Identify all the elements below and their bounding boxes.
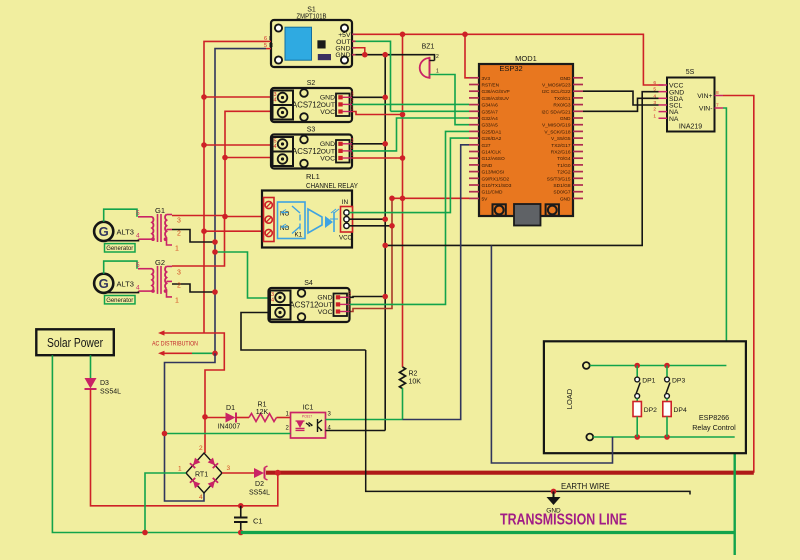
svg-text:NO: NO — [280, 225, 289, 232]
svg-text:RST/EN: RST/EN — [482, 83, 500, 89]
wire N to S4 terminal1 green — [215, 252, 284, 298]
wire S2 OUT row straight to ESP32 G34 — [352, 103, 469, 105]
ESP8266 relay control box — [544, 341, 746, 453]
svg-text:I2C SCL/G22: I2C SCL/G22 — [542, 89, 571, 95]
svg-text:V_MISO/G19: V_MISO/G19 — [542, 123, 571, 129]
wire S3 OUT route up to ESP32 G32 — [352, 118, 469, 151]
node S2 voc junction — [400, 112, 406, 118]
load terminal bottom — [586, 434, 593, 441]
wire R2 bottom green to IC1 pin3 node — [402, 388, 404, 420]
svg-text:G34/A6: G34/A6 — [482, 103, 499, 109]
svg-text:4: 4 — [136, 233, 140, 240]
svg-text:ALT3: ALT3 — [117, 228, 134, 237]
svg-text:TX2/G17: TX2/G17 — [551, 143, 571, 149]
svg-text:IN: IN — [342, 199, 349, 206]
wire S1 OUT green drop to G34 row — [356, 41, 391, 111]
pin labels RL1 IN VCC — [339, 199, 353, 242]
svg-text:VIN-: VIN- — [699, 105, 713, 112]
wire VCC aux red vertical x392 — [350, 198, 393, 311]
wire AC distribution stub2 red-green — [158, 351, 215, 356]
svg-text:RX2/G16: RX2/G16 — [551, 150, 571, 156]
svg-text:G10/TX1/SD3: G10/TX1/SD3 — [482, 183, 512, 189]
wire N jog to bridge pin4 — [165, 353, 216, 501]
svg-text:G1: G1 — [155, 206, 165, 215]
svg-text:OUT: OUT — [321, 102, 335, 109]
wire L to relay terminal3 — [204, 230, 264, 232]
wire solar right lead green to D3 — [90, 355, 92, 378]
node S3 terminal2 junction — [222, 155, 228, 161]
svg-text:GND: GND — [317, 295, 332, 302]
RL1 relay contact block K1 — [278, 202, 306, 239]
wire load bottom rail green — [593, 436, 735, 438]
svg-text:G35/A7: G35/A7 — [482, 109, 499, 115]
svg-text:5: 5 — [136, 262, 140, 269]
wire 5V row to ESP32 pin — [392, 197, 469, 199]
svg-text:T2/G2: T2/G2 — [557, 170, 571, 176]
svg-text:5V: 5V — [482, 196, 489, 202]
wire D1 to R1 — [236, 417, 249, 419]
Generator label box #2 — [105, 296, 136, 305]
svg-text:4: 4 — [271, 298, 274, 304]
Solar Power box — [36, 329, 114, 355]
pin numbers IC1 — [286, 412, 332, 432]
svg-text:NA: NA — [669, 116, 679, 123]
node L/S2 junction — [201, 94, 207, 100]
svg-text:G33/A5: G33/A5 — [482, 123, 499, 129]
wire RL1 GND to bus — [349, 218, 385, 220]
buzzer BZ1 — [420, 57, 435, 79]
node INA gnd junction — [382, 243, 388, 249]
switch DP3 — [665, 366, 686, 399]
svg-text:8: 8 — [716, 90, 719, 96]
svg-text:LOAD: LOAD — [565, 388, 574, 409]
svg-text:GND: GND — [320, 95, 335, 102]
svg-text:G25/DA1: G25/DA1 — [482, 129, 502, 135]
RL1 driver symbols — [308, 209, 339, 233]
wire BZ1 pin2 black to S1 gnd line — [433, 55, 435, 61]
capacitor C1 — [234, 506, 263, 533]
wire I2C SCL from ESP32 G22 — [583, 91, 659, 105]
svg-text:ACS712: ACS712 — [292, 101, 321, 110]
svg-text:1: 1 — [175, 246, 179, 253]
label ESP8266 Relay Control — [692, 413, 736, 432]
current monitor module 5S INA219 — [653, 69, 723, 132]
svg-text:5: 5 — [136, 210, 140, 217]
svg-text:ZMPT101B: ZMPT101B — [297, 14, 327, 21]
wire I2C SDA from ESP32 G21 — [583, 98, 659, 111]
svg-text:D2: D2 — [255, 481, 264, 488]
svg-text:GND: GND — [560, 116, 571, 122]
RL1 right pin connector — [341, 207, 353, 233]
node G1/N junction — [212, 239, 218, 245]
terminal pin numbers S4 — [271, 292, 274, 304]
node L/S3 junction — [201, 142, 207, 148]
svg-text:SD0/G7: SD0/G7 — [553, 190, 570, 196]
wire N-bus navy vertical from S1 pin5 down left side — [215, 49, 266, 354]
label S3 — [307, 127, 316, 134]
wire IC1 pin4 black to gnd bus — [326, 430, 386, 432]
label LOAD rotated — [565, 388, 574, 409]
wire S3 VOC to 5V bus — [352, 157, 403, 159]
svg-text:4: 4 — [274, 144, 277, 150]
current sensor module S4 ACS712 — [269, 288, 350, 322]
svg-text:PC817: PC817 — [302, 415, 312, 419]
wire G35 row from S1 drop — [391, 110, 470, 112]
svg-text:Generator: Generator — [106, 245, 133, 252]
svg-text:6: 6 — [653, 80, 656, 86]
pin labels transformer G1 — [136, 210, 181, 253]
transformer G1 — [138, 206, 172, 245]
svg-text:V_SCK/G18: V_SCK/G18 — [544, 129, 570, 135]
terminal pin numbers S3 — [274, 139, 277, 151]
svg-text:VOC: VOC — [320, 109, 335, 116]
svg-text:TX0/G1: TX0/G1 — [554, 96, 571, 102]
svg-text:S3: S3 — [307, 127, 316, 134]
svg-text:G26/DA2: G26/DA2 — [482, 136, 502, 142]
node S1 gnd joint — [362, 52, 368, 58]
wire VIN+ red to transmission line — [723, 96, 754, 473]
wire D1 anode lead — [205, 417, 226, 419]
svg-text:6: 6 — [264, 36, 267, 42]
terminal pin numbers S2 — [274, 92, 277, 104]
wire BZ1 pin1 green route to ESP32 G33 — [435, 75, 470, 125]
RL1 left screw terminal strip — [264, 198, 275, 242]
node N/stub2 junction — [212, 351, 218, 357]
svg-text:3: 3 — [177, 218, 181, 225]
pin labels transformer G2 — [136, 262, 181, 305]
svg-text:VOC: VOC — [318, 309, 333, 316]
svg-text:G9/RX1/SD2: G9/RX1/SD2 — [482, 176, 510, 182]
node S2 gnd junction — [382, 95, 388, 101]
wire S1 GND pins to bus and buzzer — [356, 48, 434, 55]
wire G2 pin3 riser to relay line — [172, 217, 225, 267]
node L/relay-t3 junction — [201, 228, 207, 234]
wire S4 GND up to bus node — [350, 296, 386, 299]
load terminal top — [583, 362, 590, 369]
svg-text:C1: C1 — [253, 517, 263, 526]
svg-text:G12/A6SO: G12/A6SO — [482, 156, 505, 162]
label S1 / ZMPT101B — [297, 7, 327, 21]
svg-text:AC DISTRIBUTION: AC DISTRIBUTION — [152, 341, 198, 348]
svg-text:VCC: VCC — [339, 235, 353, 242]
svg-text:R1: R1 — [258, 402, 267, 409]
svg-text:IN4007: IN4007 — [218, 424, 241, 431]
pin labels S2 GND OUT VOC — [320, 91, 354, 116]
svg-text:G: G — [99, 224, 109, 239]
svg-text:7: 7 — [716, 103, 719, 109]
svg-text:3: 3 — [351, 138, 354, 144]
node rail/5V junction — [400, 32, 406, 38]
wire L to S3 terminal1 — [204, 144, 284, 146]
svg-text:RX0/G3: RX0/G3 — [553, 103, 570, 109]
svg-text:3: 3 — [348, 291, 351, 297]
wire S2 VOC to 5V bus — [352, 112, 403, 115]
label S2 — [307, 80, 316, 87]
svg-text:1: 1 — [436, 69, 439, 75]
label RL1 CHANNEL RELAY — [306, 172, 358, 190]
wire L drop to D1 anode — [204, 417, 206, 453]
svg-text:1: 1 — [175, 297, 179, 304]
wire generator2 bottom black to transformer pin4 — [104, 291, 139, 293]
svg-text:DP2: DP2 — [644, 407, 657, 414]
wire GND bus black vertical x385 — [384, 55, 386, 431]
node gnd-bus top — [382, 52, 388, 58]
svg-text:R2: R2 — [409, 371, 418, 378]
wire generator1 bottom black to transformer pin4 — [104, 239, 139, 241]
label S4 — [304, 280, 313, 287]
wire R2 node navy to ESP32 G27 — [403, 145, 470, 420]
svg-text:ESP32: ESP32 — [499, 64, 522, 73]
node earth gnd junction — [551, 489, 557, 495]
svg-text:L: L — [269, 36, 272, 42]
svg-text:S1: S1 — [307, 7, 316, 14]
svg-text:5S: 5S — [686, 69, 695, 76]
pin labels RT1 — [178, 445, 231, 501]
generator ALT3 #1 circle — [94, 222, 113, 241]
svg-text:SS/T3/G15: SS/T3/G15 — [547, 176, 571, 182]
svg-text:2: 2 — [351, 145, 354, 151]
svg-text:D1: D1 — [226, 405, 235, 412]
svg-text:N: N — [269, 43, 273, 49]
wire RL1 VCC to x392 — [349, 225, 392, 227]
wire load return navy to ESP32 — [491, 245, 612, 463]
svg-text:ACS712: ACS712 — [290, 301, 319, 310]
svg-text:ESP8266: ESP8266 — [699, 413, 729, 422]
wire ground rail right riser — [734, 437, 736, 555]
svg-text:CHANNEL RELAY: CHANNEL RELAY — [306, 181, 358, 190]
wire top +5V rail from S1 to INA219 VCC — [356, 34, 664, 85]
Generator label box #1 — [105, 244, 136, 253]
node DP3 top junction — [664, 363, 670, 369]
svg-text:2: 2 — [177, 282, 181, 289]
svg-text:G: G — [99, 276, 109, 291]
svg-text:3: 3 — [351, 91, 354, 97]
node G2/N junction — [212, 289, 218, 295]
svg-text:K1: K1 — [295, 232, 303, 239]
wire earth black — [366, 350, 690, 495]
svg-text:SD1/G8: SD1/G8 — [553, 183, 570, 189]
svg-text:OUT: OUT — [321, 148, 335, 155]
wire ground rail thick green bottom — [241, 531, 735, 534]
svg-text:VOC: VOC — [320, 155, 335, 162]
ground symbol GND — [546, 491, 561, 514]
svg-text:OUT: OUT — [318, 302, 332, 309]
wire G1 pin2 elbow to N — [172, 230, 215, 243]
node S3 voc junction — [400, 155, 406, 161]
node bottom-rail/bridge junction — [142, 530, 148, 536]
svg-text:BZ1: BZ1 — [422, 44, 435, 51]
svg-text:1: 1 — [178, 466, 182, 473]
svg-text:G39/A3/SUV: G39/A3/SUV — [482, 96, 510, 102]
svg-text:SS54L: SS54L — [100, 389, 121, 396]
current sensor module S2 ACS712 — [271, 88, 352, 122]
svg-text:2: 2 — [177, 231, 181, 238]
resistor DP4 — [663, 398, 687, 437]
diode D2 SS54L — [249, 466, 270, 497]
S1 right pins — [352, 34, 356, 54]
node RL1 vcc junction — [389, 223, 395, 229]
svg-text:GND: GND — [560, 76, 571, 82]
svg-text:G13/MOSI: G13/MOSI — [482, 170, 505, 176]
svg-text:MOD1: MOD1 — [515, 54, 537, 63]
svg-text:2: 2 — [436, 54, 439, 60]
node N/S4-feed junction — [212, 249, 218, 255]
wire transmission line positive thick red — [266, 471, 754, 475]
wire DC rail riser from solar feed — [241, 473, 278, 506]
wire RL1 IN green route up to ESP32 G25 — [349, 138, 469, 213]
wire VIN- green to load rail — [723, 108, 726, 366]
wire IC1 pin2 green to N junction — [165, 433, 291, 435]
wire D3 cathode red to DC rail — [91, 389, 241, 506]
wire S3 GND to bus — [352, 143, 385, 145]
svg-text:DP1: DP1 — [642, 378, 655, 385]
svg-text:3: 3 — [227, 465, 231, 472]
wire 3V3 drop to ESP32 — [465, 34, 469, 78]
svg-text:VIN+: VIN+ — [697, 93, 712, 100]
svg-text:DP4: DP4 — [674, 407, 687, 414]
node rail/3V3 junction — [462, 32, 468, 38]
node DP1 top junction — [634, 363, 640, 369]
current sensor module S3 ACS712 — [271, 135, 352, 169]
svg-text:ALT3: ALT3 — [117, 280, 134, 289]
svg-text:DP3: DP3 — [672, 378, 685, 385]
svg-text:V_S5/G5: V_S5/G5 — [551, 136, 571, 142]
wire S4 terminal2 black elbow to earth-wire drop — [241, 313, 366, 351]
svg-text:1: 1 — [351, 152, 354, 158]
wire S2 terminal2 feeder down — [225, 111, 284, 216]
pin labels S4 GND OUT VOC — [317, 291, 351, 316]
svg-text:IC1: IC1 — [303, 405, 314, 412]
wire INA219 GND long black to gnd bus — [385, 92, 658, 246]
wire AC distribution stub1 red — [158, 330, 224, 417]
svg-text:10K: 10K — [409, 379, 422, 386]
svg-text:NO: NO — [280, 211, 289, 218]
svg-text:2: 2 — [351, 98, 354, 104]
svg-text:G14/CLK: G14/CLK — [482, 150, 503, 156]
label AC DISTRIBUTION — [152, 341, 198, 348]
svg-text:I2C SDA/G21: I2C SDA/G21 — [541, 109, 570, 115]
wire bridge pin1 green to bottom rail — [145, 473, 186, 533]
pin labels S1 right — [335, 32, 351, 59]
node C1 top junction — [238, 503, 244, 509]
node C1 bottom junction — [238, 530, 244, 536]
svg-text:GND: GND — [482, 163, 493, 169]
svg-text:T1/G0: T1/G0 — [557, 163, 571, 169]
wire G2 pin2 elbow to N — [172, 284, 215, 292]
node S3 gnd junction — [382, 141, 388, 147]
wire L-bus red vertical from S1 pin6 down left side — [204, 41, 266, 333]
svg-text:SS54L: SS54L — [249, 490, 270, 497]
microcontroller module MOD1 ESP32 — [469, 54, 583, 226]
svg-text:T0/G4: T0/G4 — [557, 156, 571, 162]
wire R1 to IC1 pin1 — [277, 417, 291, 419]
node 5V-row/bus junction — [400, 196, 406, 202]
wire generator1 top green to transformer pin5 — [104, 209, 137, 222]
node riser junction — [275, 470, 281, 476]
switch DP1 — [635, 366, 656, 399]
wire G1 pin3 to relay terminal2 — [172, 216, 264, 217]
node RL1 gnd junction — [382, 216, 388, 222]
svg-text:3: 3 — [177, 269, 181, 276]
svg-text:S4: S4 — [304, 280, 313, 287]
node feeder/relay-line junction — [222, 214, 228, 220]
svg-text:G27: G27 — [482, 143, 491, 149]
svg-text:4: 4 — [136, 284, 140, 291]
bridge rectifier RT1 — [186, 453, 222, 493]
svg-text:RL1: RL1 — [306, 172, 320, 181]
node D1 anode junction — [202, 414, 208, 420]
svg-text:1: 1 — [348, 306, 351, 312]
svg-text:5: 5 — [264, 43, 267, 49]
diode D1 1N4007 — [218, 405, 241, 431]
svg-text:EARTH WIRE: EARTH WIRE — [561, 482, 610, 491]
svg-text:4: 4 — [199, 494, 203, 501]
svg-text:G32/A4: G32/A4 — [482, 116, 499, 122]
svg-text:D3: D3 — [100, 380, 109, 387]
svg-text:2: 2 — [348, 298, 351, 304]
wire S2 GND to bus — [352, 96, 385, 98]
svg-text:RT1: RT1 — [195, 472, 208, 479]
wire S3 terminal2 branch — [225, 157, 284, 159]
svg-text:GND: GND — [560, 196, 571, 202]
svg-text:G11/CMD: G11/CMD — [482, 190, 504, 196]
resistor DP2 — [633, 398, 657, 437]
node S4 gnd junction — [382, 294, 388, 300]
wire +5V bus red vertical x402.5 — [402, 34, 404, 367]
svg-text:Solar Power: Solar Power — [47, 335, 104, 350]
svg-text:G36/AG/SVP: G36/AG/SVP — [482, 89, 510, 95]
svg-text:2: 2 — [653, 107, 656, 113]
wire generator2 top green to transformer pin5 — [104, 261, 137, 274]
resistor R2 10K — [400, 367, 422, 389]
svg-text:ACS712: ACS712 — [292, 147, 321, 156]
node 5V-row/x392 junction — [389, 196, 395, 202]
node DP4 bottom junction — [664, 434, 670, 440]
svg-text:12K: 12K — [256, 409, 269, 416]
svg-text:INA219: INA219 — [679, 124, 702, 131]
svg-text:1: 1 — [653, 113, 656, 119]
generator ALT3 #2 circle — [94, 274, 113, 293]
svg-text:3V3: 3V3 — [482, 76, 491, 82]
wire solar left lead green to bottom rail — [52, 355, 240, 532]
transformer G2 — [138, 258, 172, 297]
relay module RL1 box — [262, 191, 352, 248]
svg-text:GND: GND — [335, 52, 350, 59]
wire load top rail green — [590, 365, 727, 367]
svg-text:S2: S2 — [307, 80, 316, 87]
wire L to S2 terminal1 — [204, 96, 284, 98]
node IC1 pin2 / N junction — [162, 431, 168, 437]
label ALT3 #1 — [117, 228, 134, 237]
S1 left pins 6L 5N — [264, 36, 273, 49]
svg-text:GND: GND — [320, 141, 335, 148]
optocoupler IC1 PC817 — [291, 405, 326, 439]
voltage sensor module S1 ZMPT101B — [271, 20, 352, 67]
wire S4 OUT route up to ESP32 G26 — [350, 131, 470, 304]
svg-text:V_MOSI/G23: V_MOSI/G23 — [542, 83, 571, 89]
label BZ1 — [422, 44, 439, 75]
svg-text:1: 1 — [351, 106, 354, 112]
wire bridge pin3 to D2 — [222, 472, 254, 474]
resistor R1 12K — [249, 402, 277, 422]
label ALT3 #2 — [117, 280, 134, 289]
svg-text:4: 4 — [274, 98, 277, 104]
label EARTH WIRE — [561, 482, 610, 491]
label TRANSMISSION LINE — [500, 512, 627, 529]
pin labels S3 GND OUT VOC — [320, 138, 354, 163]
node DP2 bottom junction — [634, 434, 640, 440]
svg-text:Generator: Generator — [106, 297, 133, 304]
